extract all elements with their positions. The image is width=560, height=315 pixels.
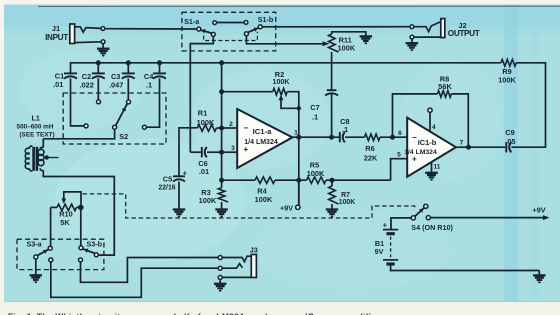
resistor R1	[197, 125, 216, 132]
wire top bus	[71, 63, 502, 73]
B1 plus	[383, 220, 388, 229]
svg-text:INPUT: INPUT	[45, 33, 68, 42]
S2 pole	[113, 104, 128, 129]
resistor R3	[218, 188, 228, 210]
ground at B1	[533, 275, 546, 282]
capacitor C2	[92, 63, 105, 79]
wire C9 to right edge	[512, 63, 546, 147]
svg-text:22K: 22K	[364, 153, 378, 162]
wire gnd stub B1	[538, 271, 540, 276]
C6 label	[198, 159, 209, 176]
S4 pole	[411, 216, 415, 220]
svg-text:100K: 100K	[255, 195, 273, 204]
+9V rail label	[533, 206, 546, 215]
svg-text:(SEE TEXT): (SEE TEXT)	[19, 132, 54, 139]
S3-a top contact	[48, 246, 52, 250]
battery B1	[383, 230, 398, 264]
capacitor C5	[173, 168, 188, 209]
capacitor C1	[64, 73, 77, 78]
svg-text:+9V: +9V	[533, 206, 546, 215]
wire R8 branch	[393, 94, 438, 137]
S3-b pole	[83, 248, 98, 256]
jack J1	[70, 24, 75, 44]
svg-text:+: +	[244, 145, 249, 154]
J3 ring contact	[218, 264, 242, 271]
R5 label	[307, 160, 325, 178]
S4 throw contact	[426, 216, 430, 220]
node bus to IC1-a input	[219, 60, 224, 65]
wire C8 to R6	[345, 136, 365, 138]
S1 link top contacts	[213, 21, 248, 25]
blue scanner streak	[504, 5, 518, 303]
R2 label	[273, 70, 291, 86]
R8 label	[438, 75, 452, 92]
C3 label	[109, 72, 123, 90]
C1 label	[53, 71, 64, 89]
R9 label	[498, 67, 516, 85]
mech link R10 to S4	[83, 194, 417, 218]
svg-text:100K: 100K	[273, 78, 291, 86]
wire S4 to +9V rail	[430, 215, 549, 220]
S1-b label	[258, 15, 274, 24]
resistor R6	[365, 134, 380, 141]
svg-text:OUTPUT: OUTPUT	[448, 29, 480, 38]
svg-text:−: −	[244, 124, 249, 133]
bottom caption strip	[0, 302, 560, 315]
S3-a lower contact	[49, 258, 53, 262]
wire R1 to node	[217, 127, 222, 129]
svg-text:J1: J1	[52, 24, 60, 33]
wire R2 to output	[287, 92, 299, 206]
wire S2 pole to L1 top	[43, 129, 114, 139]
+9V mid label	[280, 203, 293, 212]
S3-b lower contact	[79, 258, 83, 262]
wire output row	[292, 136, 339, 138]
switch S3 dashed box	[17, 239, 104, 269]
C5 label	[158, 175, 175, 192]
svg-text:C1: C1	[55, 71, 64, 80]
S3-b label	[87, 239, 103, 248]
wire C7 to R11	[331, 52, 333, 90]
S4 label	[411, 223, 453, 232]
C8 label	[340, 117, 349, 134]
wire S1-a pole down to R1	[190, 36, 213, 152]
wire C1 bottom to S2	[71, 78, 85, 126]
pin 11 stub	[432, 162, 441, 173]
J2 tip contact	[410, 22, 441, 32]
C2 label	[80, 72, 94, 90]
S1-a label	[184, 17, 200, 26]
wire C3 bottom	[127, 78, 129, 100]
R3 label	[199, 188, 217, 205]
node bias	[296, 178, 301, 183]
wire R5 to R7	[326, 179, 391, 181]
wire S1-b pole to R11 wiper	[246, 36, 329, 47]
svg-text:9V: 9V	[375, 247, 384, 256]
wire R2 row	[222, 91, 273, 93]
svg-text:IC1-a: IC1-a	[253, 127, 273, 136]
ground at R3	[215, 210, 228, 217]
svg-text:+9V: +9V	[280, 203, 293, 212]
svg-text:+: +	[383, 220, 388, 229]
svg-text:7: 7	[460, 140, 464, 147]
wire S1-b to J2	[262, 26, 410, 28]
svg-text:1/4 LM324: 1/4 LM324	[404, 149, 437, 156]
switch S1 dashed box	[182, 12, 276, 51]
S3-a pole	[34, 250, 48, 259]
svg-text:C5: C5	[163, 175, 172, 184]
node pin2	[219, 126, 224, 131]
resistor R9	[501, 60, 516, 67]
wire input node vertical	[221, 63, 223, 188]
pin 1 label	[294, 130, 298, 137]
pin 5 stub	[391, 152, 408, 181]
wire R10 left down	[50, 207, 52, 246]
svg-text:S2: S2	[119, 132, 128, 141]
ground at R7	[326, 210, 338, 217]
node C3 bus	[126, 60, 131, 65]
wire R10 right	[77, 206, 81, 208]
S1-a pole	[201, 29, 216, 37]
wire R11 top to ground	[332, 32, 366, 36]
S1-b contact	[258, 25, 262, 29]
capacitor C9	[506, 142, 511, 152]
terminal +9V mid	[296, 180, 300, 209]
svg-text:Fig. 1. The Whistler circuitry: Fig. 1. The Whistler circuitry uses one-…	[8, 312, 382, 315]
svg-text:3: 3	[231, 145, 235, 152]
J2 label	[448, 21, 480, 38]
S2 contact 1	[84, 124, 88, 128]
S2 contact 4	[142, 125, 146, 129]
svg-text:C2: C2	[82, 72, 91, 81]
pin 6 label	[398, 130, 402, 137]
wire C6 row	[190, 151, 201, 153]
S2 contact 2	[97, 100, 101, 104]
wire R10 right down	[80, 207, 82, 245]
S2 label	[119, 132, 128, 141]
svg-text:100K: 100K	[338, 43, 356, 52]
R6 label	[364, 144, 378, 162]
R2 wiper	[279, 95, 299, 109]
wire R4 to node	[275, 179, 307, 181]
svg-text:S1-b: S1-b	[258, 15, 274, 24]
J3 tip contact	[218, 256, 251, 262]
wire B1 minus	[391, 266, 540, 271]
R10 label	[59, 210, 73, 228]
svg-text:.047: .047	[109, 81, 123, 90]
capacitor C3	[122, 63, 135, 79]
svg-text:R1: R1	[198, 109, 207, 118]
node pin3	[219, 150, 224, 155]
svg-text:100K: 100K	[199, 196, 217, 205]
pin 3 stub	[222, 145, 238, 152]
svg-text:.1: .1	[146, 81, 152, 90]
svg-text:.1: .1	[342, 125, 348, 134]
wire pin7 out	[456, 146, 505, 148]
svg-text:1/4 LM324: 1/4 LM324	[244, 139, 278, 146]
J3 label	[250, 246, 258, 255]
L1 tap	[45, 155, 59, 159]
C7 label	[310, 103, 319, 122]
resistor R4	[255, 177, 275, 184]
ground at J2	[406, 43, 419, 50]
B1 label	[375, 239, 385, 256]
svg-text:5K: 5K	[60, 218, 70, 227]
C9 label	[505, 128, 515, 146]
node output	[296, 135, 301, 140]
wire C4 bottom to S2	[146, 78, 159, 127]
J2 sleeve contact	[410, 35, 441, 43]
ground at J3	[214, 284, 227, 291]
resistor R5	[307, 177, 326, 184]
capacitor C4	[153, 63, 166, 79]
svg-text:.1: .1	[312, 113, 318, 122]
wire R10 left	[51, 206, 57, 208]
potentiometer R11	[329, 34, 339, 52]
J1 tip contact	[75, 27, 105, 33]
ground at J1	[97, 49, 110, 56]
resistor R8	[437, 91, 451, 98]
S3-b top contact	[79, 246, 83, 250]
jack J2	[441, 19, 445, 38]
wire C6 to node	[207, 151, 222, 153]
svg-text:56K: 56K	[438, 82, 452, 91]
svg-text:.01: .01	[199, 167, 209, 176]
switch S2 dashed box	[63, 93, 166, 144]
pin 7 label	[460, 140, 464, 147]
R11 label	[338, 36, 356, 53]
svg-text:100K: 100K	[498, 76, 516, 85]
R7 label	[339, 192, 355, 206]
R1 label	[197, 109, 215, 128]
node C4 bus	[157, 60, 162, 65]
node C2 bus	[96, 60, 101, 65]
svg-text:100K: 100K	[307, 169, 325, 178]
wire R8 to output	[451, 94, 468, 147]
pin 2 stub	[222, 121, 238, 128]
S1-a contact	[197, 27, 201, 31]
svg-text:S3-a: S3-a	[27, 239, 43, 248]
svg-text:R6: R6	[365, 144, 374, 153]
S1 mechanical link	[204, 32, 258, 41]
resistor R7	[329, 180, 339, 209]
node R2 wiper tie	[297, 106, 301, 110]
S4 lever	[415, 208, 425, 217]
svg-text:R5: R5	[310, 160, 319, 169]
node R8 tap	[390, 135, 395, 140]
inductor L1	[25, 139, 114, 255]
svg-text:11: 11	[434, 163, 441, 170]
svg-text:C3: C3	[111, 72, 120, 81]
svg-text:2: 2	[229, 121, 233, 128]
top bluer band	[4, 5, 560, 27]
ground at pin 11	[425, 173, 438, 180]
svg-text:S1-a: S1-a	[184, 17, 200, 26]
svg-text:22/16: 22/16	[158, 185, 175, 192]
svg-text:.022: .022	[80, 81, 94, 90]
capacitor C8	[340, 132, 345, 142]
svg-text:L1: L1	[32, 113, 40, 122]
resistor R10	[57, 204, 76, 211]
ground at C5	[173, 210, 185, 217]
svg-text:.05: .05	[505, 137, 515, 146]
node R10 right	[78, 205, 84, 211]
J1 label	[45, 24, 68, 42]
node pin7	[466, 145, 471, 150]
svg-text:C7: C7	[310, 103, 319, 112]
node R3 top	[219, 178, 224, 183]
L1 label	[17, 113, 55, 138]
wire R3 node to R4	[222, 179, 255, 181]
svg-text:500–600 mH: 500–600 mH	[17, 124, 54, 131]
pin 4 terminal	[428, 108, 436, 131]
node C7 tap	[329, 135, 334, 140]
svg-text:S3-b: S3-b	[87, 239, 103, 248]
svg-text:IC1-b: IC1-b	[418, 138, 437, 147]
svg-text:6: 6	[398, 130, 402, 137]
svg-text:C4: C4	[144, 72, 154, 81]
scan line at top of cyan block	[38, 5, 560, 7]
capacitor C7	[325, 90, 338, 95]
wire S3-a pole to gnd	[35, 259, 37, 275]
svg-text:−: −	[412, 133, 417, 142]
svg-text:J3: J3	[250, 246, 258, 255]
svg-text:+: +	[183, 168, 188, 177]
R10 wiper	[61, 192, 81, 205]
wire C7 riser	[331, 93, 333, 137]
S3-a label	[27, 239, 43, 248]
jack J3	[251, 255, 256, 278]
ground at S3-a	[30, 275, 43, 282]
svg-text:100K: 100K	[197, 118, 215, 127]
node R7 top	[330, 178, 335, 183]
ground at R11	[360, 36, 373, 43]
op-amp IC1-a	[237, 109, 292, 168]
op-amp IC1-b	[404, 118, 456, 177]
J3 sleeve contact	[218, 275, 251, 279]
svg-text:S4 (ON R10): S4 (ON R10)	[411, 223, 453, 232]
S2 contact 3	[127, 100, 131, 104]
wire C2 bottom	[97, 78, 99, 99]
wire R6 to pin 6	[380, 136, 407, 138]
wire S3-a to J3 ring	[51, 262, 218, 297]
light mottle patches	[55, 138, 245, 262]
svg-text:.01: .01	[53, 80, 63, 89]
R4 label	[255, 187, 273, 205]
node R2 row	[219, 89, 224, 94]
J1 sleeve contact	[75, 40, 105, 49]
svg-text:5: 5	[397, 152, 401, 159]
wire J3 sleeve gnd	[219, 279, 221, 283]
C4 label	[144, 72, 154, 90]
svg-text:C9: C9	[505, 128, 514, 137]
S4 open contact	[424, 204, 428, 208]
S1-b pole	[244, 27, 258, 35]
svg-text:4: 4	[432, 124, 436, 131]
wire J1 tip to S1-a	[105, 28, 197, 30]
resistor R2	[273, 88, 287, 95]
wire C5 top to R1	[179, 128, 197, 176]
capacitor C6	[202, 147, 207, 157]
svg-text:100K: 100K	[339, 199, 355, 206]
wire S4 pole to B1	[391, 218, 411, 230]
wire S3-b to J3 tip	[81, 258, 219, 283]
